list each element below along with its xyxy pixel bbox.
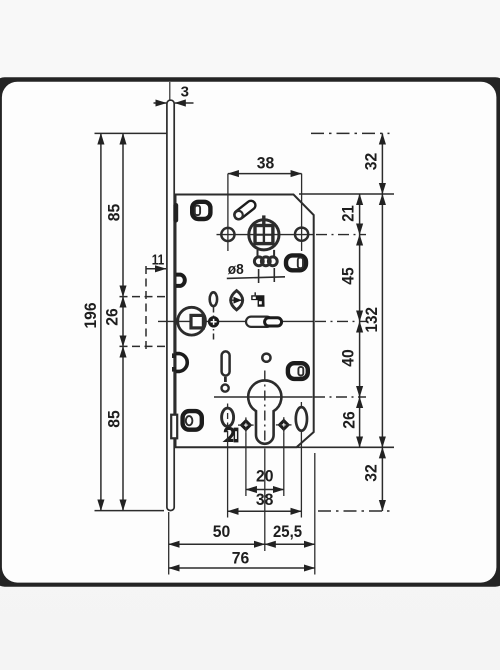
latch square: [191, 315, 203, 328]
card frame: [0, 77, 500, 586]
svg-text:50: 50: [213, 523, 231, 541]
body top extension line: [299, 193, 394, 195]
svg-text:32: 32: [362, 153, 380, 171]
svg-text:3: 3: [181, 84, 189, 101]
leg 38 bottom right: [300, 431, 302, 518]
edge bulge p tab bottom: [172, 367, 176, 372]
dim 25,5 line: [265, 543, 315, 545]
tick below capsule: [224, 377, 227, 382]
hub square: [255, 226, 273, 244]
svg-text:21: 21: [340, 205, 358, 222]
svg-text:32: 32: [362, 464, 380, 482]
small oval above latch screw: [210, 292, 217, 306]
plate tab top dark bar: [173, 203, 178, 223]
dim 3 line left: [154, 102, 167, 104]
centerline cylinder horizontal: [214, 396, 313, 398]
tall capsule guide: [222, 351, 230, 375]
svg-text:ø8: ø8: [228, 262, 244, 278]
svg-text:11: 11: [152, 252, 165, 269]
dim 21 vertical: [359, 194, 361, 235]
svg-text:25,5: 25,5: [273, 523, 302, 541]
plate tab bottom-left: [171, 415, 177, 439]
lever end circle: [235, 211, 243, 219]
dim 11 line: [146, 268, 166, 270]
leg 38 top right: [301, 174, 303, 251]
hub square vertical line: [263, 226, 265, 244]
svg-text:38: 38: [257, 155, 275, 173]
centerline hub horizontal: [217, 234, 314, 236]
oval slot bottom-right: [296, 407, 307, 431]
oval slot bottom-left: [222, 408, 234, 426]
dim 32 top vertical: [381, 133, 383, 194]
dim 26 left vertical: [122, 297, 124, 347]
dim 38 top line: [228, 173, 302, 175]
centerline latch dash right: [315, 320, 366, 322]
centerline latch horizontal: [158, 320, 314, 322]
wire frame-to-plate centerline: [169, 82, 171, 100]
oval slot bottom-left dash above: [227, 404, 229, 432]
svg-text:76: 76: [232, 550, 250, 568]
leg 38 bottom left: [227, 431, 229, 518]
boss top-right inner slot: [298, 258, 303, 269]
bottom dash-dot reference line right: [318, 510, 390, 512]
extension line top-left: [95, 132, 171, 134]
svg-text:38: 38: [256, 491, 274, 509]
dim 76 line: [169, 567, 315, 569]
dim 50 line: [169, 543, 265, 545]
boss top-left D: [192, 202, 210, 219]
dim 20 line: [246, 489, 284, 491]
svg-text:20: 20: [256, 468, 274, 486]
hub square horizontal line: [255, 234, 273, 236]
dim 26 right vertical: [359, 397, 361, 447]
svg-text:40: 40: [340, 349, 358, 367]
hole row circle 3: [268, 257, 277, 266]
hole row circle 1: [254, 257, 263, 266]
oval slot bottom-right stub above: [300, 402, 302, 407]
hub stub: [262, 215, 265, 225]
cross screw left of cylinder: [240, 419, 253, 432]
lever capsule outline: [239, 205, 251, 215]
svg-text:26: 26: [341, 411, 359, 429]
leader line o8: [227, 277, 285, 279]
svg-text:196: 196: [82, 303, 100, 329]
dim 45 vertical: [359, 235, 361, 322]
leg 38 top left: [227, 174, 229, 251]
leg 20 left: [245, 433, 247, 496]
lock body outline: [176, 195, 314, 448]
hub circle: [249, 220, 279, 250]
dim 132 vertical: [381, 194, 383, 447]
centerline hub dash right: [316, 234, 366, 236]
leader tick 2: [273, 268, 275, 282]
top dash-dot reference line right: [311, 132, 390, 134]
small circle below capsule: [222, 385, 229, 392]
edge bulge b: [176, 275, 185, 286]
leg cylinder center bottom: [264, 449, 266, 552]
dim 40 vertical: [359, 321, 361, 397]
screw hole top-right cross circle: [295, 228, 308, 241]
extension line bottom-left: [95, 510, 165, 512]
dashed vertical x146: [145, 266, 147, 349]
dim 85 bottom vertical: [122, 346, 124, 510]
flag element: [251, 295, 264, 307]
cross screw right of cylinder: [277, 419, 290, 432]
boss bottom-right inner slot: [298, 367, 303, 376]
boss bottom-left D: [183, 411, 202, 430]
hub connector right: [273, 250, 275, 257]
edge bulge p: [176, 354, 187, 372]
leader tick 1: [258, 269, 260, 283]
dim 38 bottom line: [228, 510, 302, 512]
screw hole top-left cross circle: [221, 228, 234, 241]
hole row circle 2: [261, 257, 270, 266]
latch circle: [178, 307, 206, 335]
small circle center: [262, 354, 270, 362]
body bottom extension line: [297, 446, 394, 448]
leg body right bottom: [314, 453, 316, 575]
euro cylinder profile: [248, 380, 281, 443]
part 2-bracket: [225, 428, 233, 440]
latch screw filled: [208, 316, 219, 327]
edge bulge p tab top: [172, 353, 176, 358]
svg-text:26: 26: [104, 308, 122, 326]
dashed line y296: [120, 296, 167, 298]
boss bottom-right D: [288, 363, 308, 379]
svg-text:132: 132: [363, 307, 381, 333]
boss top-left inner slot: [195, 206, 200, 216]
faceplate: [167, 100, 174, 510]
leg plate bottom: [168, 512, 170, 575]
dim 196 vertical: [100, 133, 102, 510]
centerline cylinder vertical dash: [264, 371, 266, 445]
deadbolt capsule B: [265, 318, 282, 326]
dim 32 bottom vertical: [381, 447, 383, 511]
dim 3 line right: [175, 102, 194, 104]
boss bottom-left inner oval: [186, 416, 193, 425]
leg 20 right: [283, 433, 285, 496]
svg-text:85: 85: [106, 204, 124, 222]
svg-text:85: 85: [106, 410, 124, 428]
deadbolt capsule A: [246, 317, 272, 327]
centerline latch vertical dash: [213, 307, 215, 342]
centerline cylinder dash right: [314, 396, 366, 398]
dashed line y346: [120, 345, 167, 347]
svg-text:45: 45: [340, 267, 358, 285]
hub connector left: [257, 250, 259, 257]
lens spring element: [231, 291, 243, 310]
boss top-right D: [286, 255, 306, 270]
dim 85 top vertical: [122, 133, 124, 296]
